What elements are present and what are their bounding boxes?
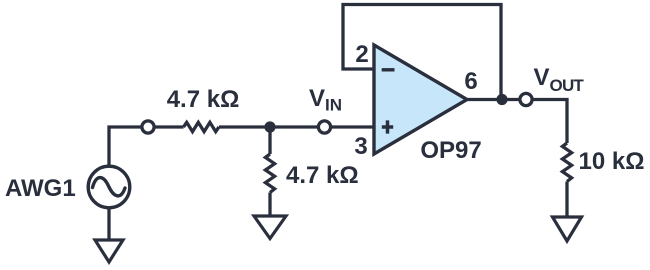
svg-text:3: 3 bbox=[354, 133, 367, 160]
ground (R3) bbox=[553, 217, 582, 241]
terminal (input, open circle) bbox=[142, 121, 154, 133]
svg-text:4.7 kΩ: 4.7 kΩ bbox=[286, 162, 359, 189]
wire node A down to R2 bbox=[268, 127, 271, 154]
resistor R1 4.7 kOhm (series, horizontal) bbox=[184, 122, 219, 131]
wire AWG1 to input network bbox=[109, 127, 184, 166]
terminal VOUT (open circle) bbox=[520, 93, 532, 105]
source AWG1 bbox=[88, 166, 130, 208]
sine symbol bbox=[93, 178, 126, 196]
svg-text:2: 2 bbox=[355, 41, 368, 68]
wire R1 to node A bbox=[219, 125, 270, 128]
wire op-amp output to load bbox=[467, 100, 567, 144]
svg-text:AWG1: AWG1 bbox=[5, 175, 76, 202]
svg-text:6: 6 bbox=[464, 68, 477, 95]
node output (junction dot) bbox=[496, 94, 507, 105]
svg-text:OP97: OP97 bbox=[420, 137, 481, 164]
terminal VIN (open circle) bbox=[318, 121, 330, 133]
op-amp plus sign bbox=[382, 120, 393, 133]
svg-text:4.7 kΩ: 4.7 kΩ bbox=[167, 86, 240, 113]
ground (AWG1) bbox=[95, 240, 123, 262]
op-amp U1 OP97 bbox=[374, 45, 467, 154]
wire R3 to ground bbox=[565, 182, 568, 218]
wire pin2 + feedback loop bbox=[343, 5, 501, 100]
ground (R2) bbox=[254, 216, 286, 239]
svg-text:10 kΩ: 10 kΩ bbox=[579, 148, 645, 175]
node A (junction dot) bbox=[264, 121, 275, 132]
wire node A to op-amp pin 3 bbox=[270, 125, 374, 128]
op-amp minus sign bbox=[382, 68, 395, 71]
resistor R3 10 kOhm (load, vertical) bbox=[562, 143, 571, 182]
wire AWG1 to ground bbox=[107, 208, 110, 240]
svg-text:VIN: VIN bbox=[309, 85, 342, 115]
resistor R2 4.7 kOhm (shunt, vertical) bbox=[265, 154, 274, 193]
svg-text:VOUT: VOUT bbox=[534, 64, 585, 95]
wire R2 to ground bbox=[268, 193, 271, 217]
